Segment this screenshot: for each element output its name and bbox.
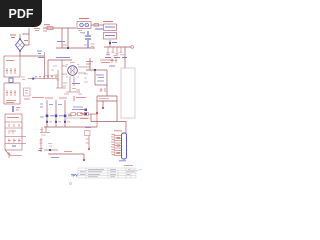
red text row under resistors bbox=[66, 117, 90, 119]
label bridge bbox=[10, 35, 28, 41]
node dot bbox=[109, 42, 111, 44]
label F101 bbox=[44, 24, 50, 26]
connector label below bbox=[119, 160, 126, 162]
PDF badge bbox=[0, 0, 42, 27]
ic area labels top bbox=[86, 60, 114, 64]
pin 1 bbox=[114, 135, 122, 137]
cluster comp marks bbox=[54, 75, 82, 94]
wire x90 drop bbox=[89, 58, 91, 70]
wire bulk cap bus bbox=[78, 47, 95, 49]
wire x95 drop bbox=[94, 70, 96, 85]
box3 marks row2 bbox=[9, 130, 16, 134]
wire y85 bbox=[95, 84, 107, 86]
small box left bbox=[24, 88, 31, 96]
small labels mid bbox=[49, 104, 62, 106]
node dot bbox=[49, 149, 51, 151]
page number mark bbox=[70, 183, 72, 185]
transformer pin marks bbox=[66, 63, 79, 78]
box2 marks bbox=[6, 90, 16, 96]
cap stub 3 bbox=[116, 47, 119, 55]
capacitor CX marks under badge edge bbox=[34, 29, 47, 32]
pin 7 bbox=[114, 150, 122, 152]
capacitor CX201 bbox=[94, 24, 99, 27]
sub rect bus 2 bbox=[97, 100, 117, 102]
label RL101 bbox=[103, 21, 113, 23]
small comp box bbox=[85, 131, 91, 136]
side labels left of ic bbox=[84, 74, 88, 82]
left small marks bbox=[21, 77, 25, 80]
wire y150 bbox=[44, 149, 58, 151]
connector CN201 bbox=[122, 133, 127, 159]
wire left vert x48 bbox=[47, 60, 49, 79]
box3 chamfer bbox=[5, 150, 22, 156]
sub rect left drop bbox=[96, 96, 98, 112]
pin 3 bbox=[114, 140, 122, 142]
end dot bbox=[83, 159, 85, 161]
secondary label row bbox=[45, 97, 86, 100]
relay box lower bbox=[104, 33, 117, 40]
relay box upper bbox=[104, 24, 117, 31]
table text smudges bbox=[80, 169, 135, 176]
cap stub 4 bbox=[120, 47, 123, 53]
wire from badge to bridge bbox=[22, 28, 29, 34]
coil left dot bbox=[32, 78, 34, 80]
box3 marks row3 bbox=[8, 139, 21, 143]
labels blue right bbox=[109, 65, 115, 67]
thermistor blue between boxes bbox=[9, 78, 13, 83]
box1 varistor marks bbox=[6, 68, 16, 74]
label red mid bbox=[64, 151, 72, 153]
wire top y60 bbox=[48, 59, 72, 61]
wires out transformer right bbox=[78, 67, 90, 73]
node dot x68 bbox=[67, 47, 69, 49]
wire caps bus bbox=[104, 46, 131, 48]
wire y121 to connector rail bbox=[91, 114, 126, 122]
resistor boxes row bbox=[71, 113, 76, 116]
wire bridge bottom bbox=[19, 51, 21, 56]
drop end dot bbox=[96, 112, 98, 114]
bottom small comp bbox=[8, 152, 11, 158]
heatsink outline bbox=[121, 68, 135, 118]
wire horiz y48 bbox=[56, 47, 78, 49]
marks above bbox=[48, 144, 52, 147]
right comp column bbox=[88, 136, 90, 149]
cap stubs upper right bbox=[111, 58, 118, 63]
wire drop x62 bbox=[61, 28, 63, 48]
relay box text bbox=[105, 26, 115, 28]
label CX201 bbox=[95, 28, 103, 30]
wire relay down bbox=[109, 40, 111, 47]
blue mark inside bbox=[12, 145, 16, 147]
filter box 2 bbox=[4, 83, 20, 104]
sub rect right side bbox=[116, 96, 118, 122]
wire thru resistors bbox=[68, 113, 97, 115]
box3 divider 3 bbox=[5, 136, 26, 138]
choke LF101 box bbox=[77, 22, 91, 29]
red marks beside bbox=[16, 108, 20, 111]
diode marks on verts bbox=[46, 115, 49, 118]
blue labels mid ic bbox=[96, 75, 104, 81]
secondary vert 1 bbox=[46, 100, 48, 127]
wire right rail bbox=[124, 47, 126, 68]
cap plus marks bbox=[83, 33, 95, 47]
wires transformer bottom bbox=[70, 77, 74, 93]
box3 divider 4 bbox=[5, 143, 26, 145]
labels caps row bbox=[105, 57, 127, 59]
label under opto bbox=[80, 118, 88, 120]
label under transformer bbox=[72, 83, 80, 85]
long wire y154 bbox=[48, 153, 84, 155]
diode marks mid bbox=[100, 88, 106, 92]
comp marks bbox=[39, 140, 43, 149]
box3 marks row1 bbox=[9, 124, 19, 127]
label above caps row bbox=[112, 42, 117, 44]
pin 4 bbox=[114, 142, 122, 144]
choke cross marks bbox=[81, 24, 88, 26]
wire bridge right bbox=[25, 34, 30, 45]
sub rect bus top bbox=[97, 95, 117, 97]
terminal ring bbox=[131, 46, 134, 49]
marks on it bbox=[86, 139, 89, 143]
stub x103 bbox=[102, 101, 104, 107]
gray scribble bbox=[130, 169, 142, 172]
secondary vert 2 bbox=[55, 100, 57, 127]
wire y70 bbox=[86, 69, 107, 71]
wire choke to CX bbox=[91, 24, 104, 26]
transformer cross bbox=[69, 67, 76, 74]
left edge labels bbox=[40, 104, 44, 117]
label LF101 bbox=[79, 18, 89, 20]
pin 2 bbox=[114, 137, 122, 139]
sub rect labels bbox=[99, 98, 109, 100]
pin 5 bbox=[114, 145, 122, 147]
pin labels column bbox=[111, 135, 115, 155]
blue component vertical bbox=[12, 106, 14, 112]
pin 9 bbox=[114, 155, 122, 157]
wire x84 drop bbox=[83, 154, 85, 160]
wire drop x68 bbox=[67, 28, 69, 48]
wire AC line top bbox=[43, 27, 76, 29]
cap stub 1 bbox=[107, 47, 110, 54]
box marks bbox=[25, 91, 28, 94]
connector label above bbox=[114, 130, 122, 132]
fuse F101 bbox=[47, 27, 53, 30]
small comp at 37,52 bbox=[37, 51, 44, 58]
box2 lower labels bbox=[6, 101, 16, 103]
wire rail down bbox=[125, 122, 127, 134]
title block table bbox=[78, 168, 136, 178]
marks under left sub bbox=[40, 130, 46, 136]
wire bottom bus bbox=[56, 88, 80, 92]
red arrow top bbox=[73, 96, 75, 101]
wire into transformer bbox=[62, 60, 67, 74]
blue labels right of diodes bbox=[50, 115, 72, 117]
red text under label bbox=[62, 44, 67, 46]
label above transformer bbox=[56, 57, 70, 59]
filter box 1 bbox=[4, 56, 20, 77]
coil left tail bbox=[28, 78, 33, 80]
wire x107 vert bbox=[106, 70, 108, 96]
bridge vertex dots bbox=[19, 34, 21, 39]
bridge rectifier D101 bbox=[16, 39, 25, 51]
choke winding left bbox=[80, 23, 84, 27]
blue marks bbox=[38, 150, 42, 152]
box3 divider 2 bbox=[5, 127, 22, 129]
bulk cap C101 bbox=[85, 31, 91, 48]
lower comp column bbox=[40, 138, 42, 152]
pin component boxes bbox=[117, 137, 120, 139]
transformer T101 bbox=[68, 66, 78, 76]
blue label above comp bbox=[85, 127, 91, 129]
secondary vert 3 bbox=[64, 100, 66, 127]
vertical x97 to bus bbox=[96, 114, 98, 127]
labels blue below bbox=[51, 157, 59, 159]
wire x44.5 down to coil bbox=[44, 52, 46, 79]
red labels caps row bbox=[106, 54, 124, 57]
node dot x95 bbox=[94, 69, 96, 71]
cap marks on verts bbox=[46, 121, 48, 123]
red marks near caps bbox=[49, 121, 70, 123]
bridge diode marks bbox=[18, 43, 22, 47]
label near drops bbox=[57, 41, 65, 43]
pin 8 bbox=[114, 152, 122, 154]
filter box 3 bbox=[5, 114, 22, 150]
relay box2 text bbox=[105, 35, 115, 37]
box3 inner label bbox=[7, 117, 19, 119]
wire bus y56 bbox=[20, 55, 44, 57]
choke winding right bbox=[85, 23, 89, 27]
box1 top label bbox=[6, 60, 14, 62]
coil bumps bbox=[35, 76, 57, 78]
primary coil row bbox=[34, 78, 58, 80]
red marks left of opto bbox=[80, 110, 83, 114]
box3 divider 1 bbox=[5, 121, 22, 123]
stub dot bbox=[102, 107, 104, 109]
labels above resistors bbox=[72, 107, 86, 110]
left sub structure bbox=[40, 127, 50, 133]
opto connector blue squares bbox=[85, 109, 88, 112]
svg-text:TPV: TPV bbox=[71, 174, 78, 178]
red text above table right bbox=[124, 165, 133, 167]
cap stub 2 bbox=[112, 47, 115, 53]
marks under choke bbox=[78, 30, 82, 32]
bus y127 bbox=[44, 126, 97, 128]
extra red marks cluster bbox=[45, 66, 57, 76]
transformer windings bbox=[71, 67, 74, 74]
pin 6 bbox=[114, 147, 122, 149]
svg-text:PDF: PDF bbox=[9, 7, 34, 21]
snubber cluster verticals bbox=[58, 70, 62, 88]
end dot bbox=[88, 148, 90, 150]
labels under cluster bbox=[24, 98, 44, 100]
